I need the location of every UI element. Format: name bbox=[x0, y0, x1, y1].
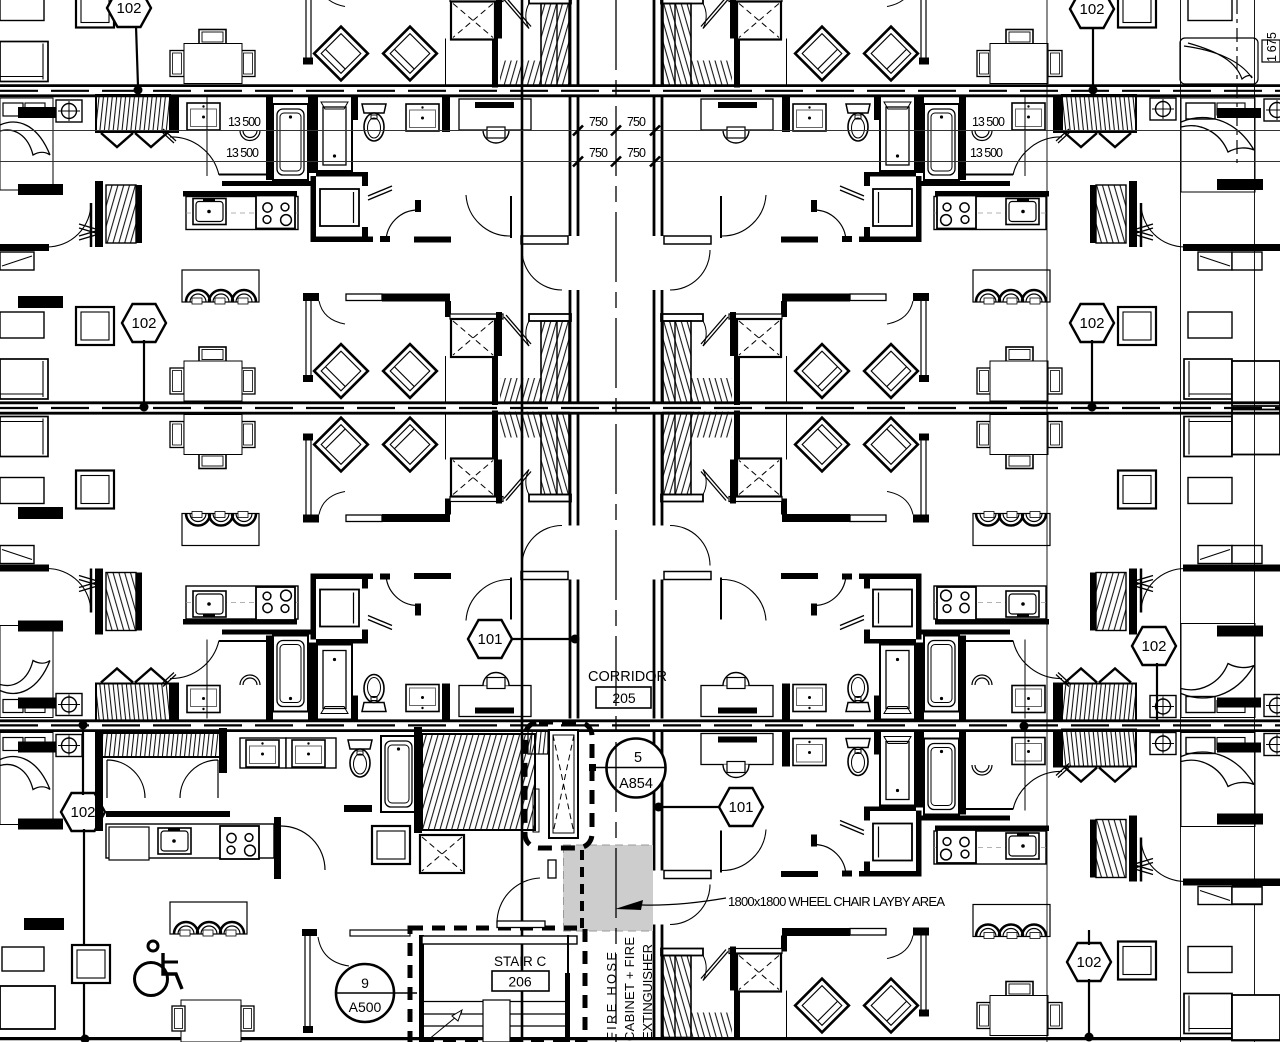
svg-text:13 500: 13 500 bbox=[970, 146, 1003, 160]
top-right corner bed bbox=[1180, 38, 1280, 84]
hexagon tag 102 bottom-right bbox=[1067, 930, 1111, 1042]
dimension texts bbox=[226, 32, 1279, 160]
svg-text:1 675: 1 675 bbox=[1265, 32, 1279, 62]
band 1 wall lines bbox=[0, 84, 1280, 87]
grid vertical x1254 bbox=[1254, 0, 1256, 1042]
wide closet hatch bbox=[102, 733, 226, 757]
armchair diamond 2 bbox=[383, 344, 437, 398]
dash-dot setback line right bbox=[1236, 0, 1238, 166]
bed column right: washers + bed bbox=[1150, 98, 1280, 192]
callout circle 9/A500 bbox=[336, 964, 417, 1022]
bathtub 1 bbox=[273, 104, 308, 180]
corridor closet shelf bbox=[529, 314, 571, 321]
band 3 wall lines bbox=[0, 719, 1280, 722]
armchair bbox=[76, 307, 114, 345]
wardrobe hatch bbox=[500, 378, 541, 404]
hexagon tag 101 left bbox=[468, 620, 580, 658]
svg-text:CABINET + FIRE: CABINET + FIRE bbox=[622, 937, 637, 1041]
svg-text:101: 101 bbox=[728, 799, 753, 816]
dining table with chairs bbox=[170, 347, 255, 401]
wall: bath/tub bbox=[266, 95, 273, 180]
closet with hatch bbox=[96, 95, 170, 132]
svg-text:13 500: 13 500 bbox=[972, 115, 1005, 129]
vanity sink 1 bbox=[187, 103, 220, 130]
grid vertical x522 bbox=[521, 0, 524, 1042]
wall: shower/wc bbox=[352, 95, 358, 120]
grid vertical x1047 bbox=[1046, 0, 1048, 1042]
door swing arc: bath bbox=[170, 137, 219, 175]
wall: bath/kitchen upper bbox=[222, 181, 312, 186]
svg-text:5: 5 bbox=[634, 750, 642, 766]
wheelchair bbox=[135, 941, 183, 996]
armchair bottom-left bbox=[72, 945, 110, 983]
wall: pantry right bbox=[136, 185, 142, 243]
toilet bottom unit bbox=[348, 740, 372, 777]
closet V door 1 bbox=[101, 133, 133, 147]
partition + door into stair vestibule bbox=[305, 932, 310, 1030]
closet V door 2 bbox=[135, 133, 167, 147]
wall: shaft below bbox=[492, 356, 498, 405]
unit row top strip right bbox=[654, 0, 1232, 88]
kitchen sink bbox=[193, 199, 226, 225]
right edge extension: wall, dresser, sofa bbox=[1232, 244, 1280, 406]
corridor closet hatch bbox=[541, 321, 569, 403]
dashed enclosure fire cabinet bbox=[525, 722, 592, 848]
dashed enclosure stair bbox=[410, 928, 585, 1042]
desk with chair bbox=[459, 99, 531, 143]
band 2 wall lines bbox=[0, 401, 1280, 404]
dimension grid line y130 bbox=[0, 130, 1280, 132]
unit row B right (mirrored) bbox=[654, 411, 1232, 721]
fire cabinet closet hatch bbox=[528, 731, 548, 754]
bifold closet door bbox=[79, 224, 99, 236]
svg-text:102: 102 bbox=[1141, 638, 1166, 655]
node dot band3 right bbox=[1020, 722, 1029, 731]
fridge bbox=[320, 189, 359, 226]
wall: bedroom/living partition left edge bbox=[0, 244, 49, 251]
dining table bottom unit bbox=[181, 1000, 241, 1042]
svg-text:1800x1800 WHEEL CHAIR LAYBY AR: 1800x1800 WHEEL CHAIR LAYBY AREA bbox=[728, 894, 945, 909]
door leaf: bedroom door bbox=[90, 203, 93, 247]
wall: closet/bath bbox=[170, 95, 179, 133]
kitchen island with stools bbox=[182, 270, 259, 304]
svg-text:A500: A500 bbox=[349, 999, 382, 1015]
svg-text:FIRE HOSE: FIRE HOSE bbox=[604, 952, 619, 1040]
bathtub bottom unit bbox=[381, 736, 416, 812]
svg-text:101: 101 bbox=[477, 631, 502, 648]
sofa bbox=[0, 359, 48, 399]
svg-text:9: 9 bbox=[361, 975, 369, 991]
svg-text:102: 102 bbox=[1079, 315, 1104, 332]
bed column left: bed + washer bbox=[0, 98, 82, 195]
armchair small room bbox=[372, 826, 410, 864]
svg-text:102: 102 bbox=[1079, 1, 1104, 18]
hexagon tag 102 top-right bbox=[1070, 0, 1114, 95]
kitchen counter bbox=[186, 197, 298, 230]
unit row top strip left bbox=[0, 0, 578, 88]
corridor centre dash-dot line bbox=[615, 0, 617, 1042]
wall: fridge alcove left bbox=[311, 176, 317, 242]
island bottom unit bbox=[170, 902, 247, 936]
svg-text:750: 750 bbox=[589, 146, 608, 160]
vanity unit 2 bbox=[286, 738, 336, 768]
TV cabinet bbox=[0, 312, 44, 338]
dimension grid line y161 bbox=[0, 161, 1280, 163]
dresser bbox=[0, 252, 34, 270]
vanity sink 2 bbox=[406, 104, 439, 131]
corridor wall left bbox=[570, 97, 578, 403]
wall: bath/bedroom bbox=[442, 95, 450, 132]
unit row A right (mirrored) bbox=[654, 95, 1232, 405]
wall: tub/shower bbox=[308, 95, 316, 173]
svg-text:102: 102 bbox=[1076, 954, 1101, 971]
svg-text:13 500: 13 500 bbox=[226, 146, 259, 160]
partition wall living bbox=[306, 294, 311, 378]
TV bar left row C bbox=[24, 918, 64, 930]
hexagon tag 102 mid-right bbox=[1070, 304, 1114, 412]
stove bottom unit bbox=[220, 826, 259, 859]
wall: kitchen top bbox=[183, 191, 297, 197]
door swing arc: bedroom bbox=[47, 203, 91, 247]
stove 4 burners bbox=[256, 196, 295, 229]
band 4 bottom wall bbox=[0, 1037, 1280, 1040]
shaft with X bbox=[451, 319, 495, 357]
svg-text:A854: A854 bbox=[619, 776, 653, 792]
room boundary line bbox=[206, 97, 208, 176]
fire hose cabinet shaft bbox=[549, 730, 578, 838]
label fire hose cabinet (vertical) bbox=[604, 937, 655, 1041]
unit row B left (mirrored) bbox=[0, 411, 578, 721]
svg-text:102: 102 bbox=[116, 0, 141, 17]
svg-text:750: 750 bbox=[627, 115, 646, 129]
svg-text:750: 750 bbox=[589, 115, 608, 129]
door swing arc: corridor entry bbox=[522, 250, 562, 290]
svg-text:206: 206 bbox=[508, 974, 532, 990]
grid vertical x1180 bbox=[1180, 0, 1182, 1042]
sofa bottom-left bbox=[0, 986, 55, 1029]
callout circle 5/A854 bbox=[589, 739, 666, 812]
bathtub 2 bbox=[317, 96, 352, 171]
hexagon tag 102 mid-right bed bbox=[1132, 627, 1176, 722]
TV bar left row A bbox=[18, 296, 63, 308]
TV bar left row B bbox=[18, 507, 63, 519]
unit row C right bbox=[654, 730, 1232, 1040]
bottom-left unit custom bbox=[0, 727, 585, 1042]
toilet bbox=[362, 104, 386, 141]
shaft with X bottom unit bbox=[420, 835, 464, 873]
wheelchair layby grey square bbox=[563, 845, 653, 931]
hexagon tag 102 bottom-left bbox=[61, 721, 105, 1042]
svg-text:102: 102 bbox=[131, 315, 156, 332]
svg-text:STAIR C: STAIR C bbox=[494, 954, 547, 969]
large wardrobe hatch bbox=[422, 734, 535, 830]
vanity unit 1 bbox=[240, 738, 286, 768]
svg-text:EXTINGUISHER: EXTINGUISHER bbox=[640, 944, 655, 1040]
pantry hatch bbox=[106, 185, 136, 243]
svg-text:102: 102 bbox=[70, 804, 95, 821]
door leaf: bath bbox=[161, 129, 176, 143]
door leaf: corridor entry bbox=[521, 236, 568, 244]
bottom-right wall extension bbox=[1232, 879, 1280, 886]
svg-text:CORRIDOR: CORRIDOR bbox=[588, 669, 667, 685]
hexagon tag 101 right bbox=[660, 788, 763, 826]
svg-text:13 500: 13 500 bbox=[228, 115, 261, 129]
hexagon tag 102 top-left bbox=[107, 0, 151, 95]
wall: kitchen left bbox=[95, 181, 103, 247]
kitchen counter bottom unit bbox=[106, 824, 274, 858]
hexagon tag 102 mid-left bbox=[122, 304, 166, 412]
svg-text:750: 750 bbox=[627, 146, 646, 160]
armchair diamond 1 bbox=[314, 344, 368, 398]
kitchen sink bottom unit bbox=[158, 828, 191, 854]
